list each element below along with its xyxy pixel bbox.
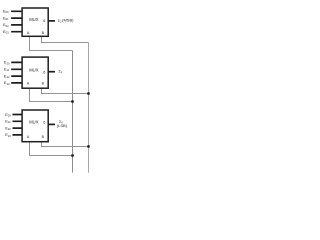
svg-text:6: 6 (43, 70, 45, 74)
svg-text:(LSB): (LSB) (57, 123, 68, 128)
wire: MUX3 select A to bus (30, 142, 73, 156)
MUX1 input labels E0-E3 (3, 9, 9, 35)
MUX1 input wires (11, 11, 22, 31)
junction dot A bus / MUX3 (71, 154, 74, 157)
MUX1 box (22, 8, 48, 36)
wire: MUX1 select A to bus (30, 36, 73, 50)
junction dot B bus / MUX2 (87, 92, 90, 95)
MUX2 output wire (48, 71, 55, 73)
svg-text:6: 6 (43, 19, 45, 23)
MUX2 input wires (11, 62, 22, 83)
MUX2 box (22, 57, 48, 88)
MUX3 box (22, 110, 48, 142)
svg-text:Σ2(MSB): Σ2(MSB) (58, 18, 75, 24)
wire: select line B vertical bus (88, 43, 90, 173)
svg-text:MUX: MUX (29, 120, 39, 125)
svg-text:MUX: MUX (29, 17, 39, 22)
wire: select line A vertical bus (72, 51, 74, 173)
MUX3 input labels E0-E3 (5, 112, 11, 138)
MUX3 output wire (48, 123, 55, 125)
svg-text:MUX: MUX (29, 68, 39, 73)
junction dot B bus / MUX3 (87, 145, 90, 148)
wire: MUX3 select B to bus (42, 142, 89, 147)
MUX3 input wires (13, 115, 23, 135)
wire: MUX2 select A to bus (30, 88, 73, 101)
wire: MUX2 select B to bus (42, 88, 89, 93)
junction dot A bus / MUX2 (71, 100, 74, 103)
svg-text:6: 6 (43, 121, 45, 125)
wire: MUX1 select B to bus (42, 36, 89, 42)
MUX1 output wire (48, 20, 55, 22)
MUX2 input labels E0-E3 (4, 60, 10, 86)
